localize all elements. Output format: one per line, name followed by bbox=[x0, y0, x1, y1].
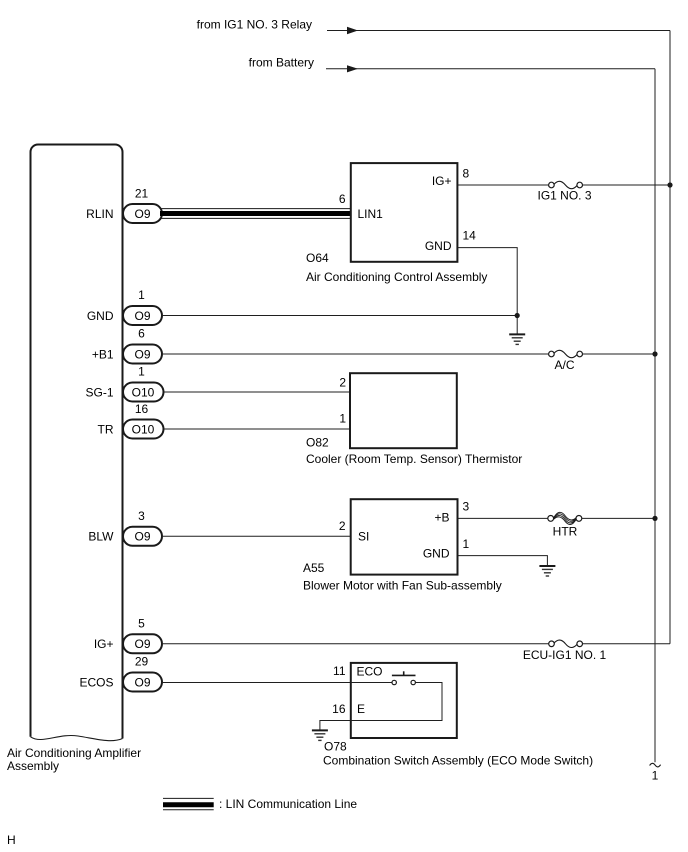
wire: GND row bbox=[162, 315, 517, 317]
svg-text:E: E bbox=[357, 702, 365, 716]
junction at battery line / HTR bbox=[652, 516, 657, 521]
svg-text:Cooler (Room Temp. Sensor) The: Cooler (Room Temp. Sensor) Thermistor bbox=[306, 452, 522, 466]
svg-text:O9: O9 bbox=[134, 347, 150, 361]
svg-text:3: 3 bbox=[463, 500, 470, 514]
svg-text:O9: O9 bbox=[134, 207, 150, 221]
svg-text:2: 2 bbox=[339, 519, 346, 533]
svg-text:from IG1 NO. 3 Relay: from IG1 NO. 3 Relay bbox=[197, 18, 312, 32]
svg-text:GND: GND bbox=[425, 239, 452, 253]
svg-text:6: 6 bbox=[339, 192, 346, 206]
svg-text:2: 2 bbox=[339, 376, 346, 390]
svg-text:O9: O9 bbox=[134, 637, 150, 651]
svg-text:O10: O10 bbox=[132, 422, 155, 436]
wire: fuse IG1 NO.3 to relay line bbox=[583, 184, 671, 186]
svg-text:14: 14 bbox=[463, 229, 477, 243]
connector O9 (RLIN) bbox=[123, 204, 162, 223]
connector O9 (GND) bbox=[123, 306, 162, 325]
wire: O64 GND down to ground bbox=[457, 248, 517, 334]
component O78 Combination Switch Assembly box bbox=[351, 663, 457, 738]
wire: IG+ to fuse IG1 NO.3 bbox=[457, 184, 548, 186]
wire: battery feed vertical right bbox=[654, 69, 656, 763]
svg-text:TR: TR bbox=[98, 422, 114, 436]
wire: switch to E pin bbox=[320, 683, 442, 730]
circuit breaker HTR bbox=[548, 516, 554, 522]
wire: TR to thermistor pin 1 bbox=[164, 428, 351, 430]
svg-text:SI: SI bbox=[358, 530, 369, 544]
off-page break tilde at bottom of battery line bbox=[650, 763, 661, 767]
component A55 Blower Motor box bbox=[351, 499, 458, 574]
fuse IG1 NO. 3 bbox=[549, 182, 555, 188]
svg-text:Air Conditioning Control Assem: Air Conditioning Control Assembly bbox=[306, 270, 487, 284]
svg-text:16: 16 bbox=[135, 402, 149, 416]
arrow head on battery feed bbox=[347, 65, 358, 72]
svg-text:RLIN: RLIN bbox=[86, 207, 113, 221]
junction at relay line / IG1 NO.3 bbox=[667, 182, 672, 187]
fuse A/C bbox=[549, 351, 555, 357]
wire: fuse A/C to battery line bbox=[583, 353, 656, 355]
svg-text:11: 11 bbox=[333, 664, 346, 678]
svg-text:O10: O10 bbox=[132, 385, 155, 399]
legend: LIN communication line sample bbox=[163, 797, 214, 799]
ground symbol (O78) bbox=[312, 730, 328, 740]
svg-text:+B1: +B1 bbox=[92, 347, 114, 361]
svg-text:IG+: IG+ bbox=[94, 637, 114, 651]
svg-text:21: 21 bbox=[135, 187, 149, 201]
svg-text:GND: GND bbox=[87, 309, 114, 323]
svg-text:Combination Switch Assembly (E: Combination Switch Assembly (ECO Mode Sw… bbox=[323, 753, 593, 767]
break wave at bottom of amplifier assembly bbox=[31, 735, 123, 740]
svg-text:ECO: ECO bbox=[357, 665, 383, 679]
component O64 Air Conditioning Control Assembly box bbox=[351, 163, 458, 262]
svg-text:LIN1: LIN1 bbox=[358, 207, 384, 221]
svg-text:from Battery: from Battery bbox=[249, 56, 314, 70]
svg-text:6: 6 bbox=[138, 327, 145, 341]
svg-text:ECOS: ECOS bbox=[79, 675, 113, 689]
svg-text:Assembly: Assembly bbox=[7, 759, 59, 773]
connector O9 (+B1) bbox=[123, 345, 162, 364]
junction at battery line / A/C bbox=[652, 351, 657, 356]
svg-text:5: 5 bbox=[138, 616, 145, 630]
svg-text:A55: A55 bbox=[303, 561, 325, 575]
svg-text:O9: O9 bbox=[134, 530, 150, 544]
wire: IG1 NO.3 relay feed horizontal bbox=[327, 30, 670, 32]
svg-text:O78: O78 bbox=[324, 739, 347, 753]
svg-text:1: 1 bbox=[138, 288, 145, 302]
component O82 Cooler (Room Temp. Sensor) Thermistor box bbox=[350, 373, 457, 448]
svg-text:GND: GND bbox=[423, 547, 450, 561]
fuse ECU-IG1 NO. 1 bbox=[549, 641, 555, 647]
svg-text:H: H bbox=[7, 833, 16, 847]
svg-text:BLW: BLW bbox=[88, 530, 114, 544]
svg-text:8: 8 bbox=[463, 167, 470, 181]
component: Air Conditioning Amplifier Assembly outline bbox=[31, 145, 123, 739]
svg-text:O64: O64 bbox=[306, 251, 329, 265]
svg-text:1: 1 bbox=[463, 537, 470, 551]
connector O10 (SG-1) bbox=[123, 383, 164, 402]
ground symbol (O64) bbox=[509, 334, 525, 344]
svg-text:3: 3 bbox=[138, 509, 145, 523]
svg-text:1: 1 bbox=[652, 769, 659, 783]
ground symbol (A55) bbox=[539, 566, 555, 576]
svg-text:IG1 NO. 3: IG1 NO. 3 bbox=[537, 189, 591, 203]
svg-text:1: 1 bbox=[138, 365, 145, 379]
wire: IG1 relay feed vertical right bbox=[669, 31, 671, 644]
svg-text:O9: O9 bbox=[134, 675, 150, 689]
connector O10 (TR) bbox=[123, 420, 164, 439]
arrow head on relay feed bbox=[347, 27, 358, 34]
svg-text:29: 29 bbox=[135, 655, 149, 669]
wire: fuse to relay feed vertical bbox=[583, 643, 671, 645]
svg-text:+B: +B bbox=[434, 511, 449, 525]
wire: +B to HTR breaker bbox=[458, 517, 548, 519]
svg-text:1: 1 bbox=[339, 412, 346, 426]
svg-text:O9: O9 bbox=[134, 309, 150, 323]
connector O9 (BLW) bbox=[123, 527, 162, 546]
svg-text:HTR: HTR bbox=[553, 525, 578, 539]
svg-text:ECU-IG1 NO. 1: ECU-IG1 NO. 1 bbox=[523, 648, 607, 662]
wire: battery feed horizontal bbox=[326, 68, 655, 70]
svg-text:16: 16 bbox=[332, 702, 346, 716]
svg-text:Blower Motor with Fan Sub-asse: Blower Motor with Fan Sub-assembly bbox=[303, 578, 502, 592]
connector O9 (ECOS) bbox=[123, 673, 162, 692]
junction GND row bbox=[515, 313, 520, 318]
svg-text:IG+: IG+ bbox=[432, 174, 452, 188]
svg-text:SG-1: SG-1 bbox=[85, 385, 113, 399]
svg-text:: LIN Communication Line: : LIN Communication Line bbox=[219, 797, 357, 811]
wire: A55 GND to ground bbox=[458, 556, 548, 566]
wire: BLW to A55 SI bbox=[162, 535, 351, 537]
wire: ECOS to O78 ECO pin bbox=[162, 682, 351, 684]
wire: IG+ row to ECU-IG1 fuse bbox=[162, 643, 549, 645]
switch: ECO mode switch contacts bbox=[351, 682, 392, 684]
wire: +B1 row to fuse A/C bbox=[162, 353, 549, 355]
connector O9 (IG+) bbox=[123, 634, 162, 653]
wire: HTR to battery line bbox=[582, 517, 655, 519]
svg-text:A/C: A/C bbox=[554, 358, 574, 372]
svg-text:O82: O82 bbox=[306, 435, 329, 449]
wire: SG-1 to thermistor pin 2 bbox=[164, 391, 351, 393]
wire: LIN communication line (thin-thick-thin) bbox=[160, 208, 351, 210]
